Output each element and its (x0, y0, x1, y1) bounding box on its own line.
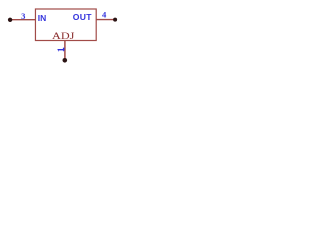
svg-text:3: 3 (21, 11, 25, 21)
svg-text:1: 1 (56, 47, 67, 52)
svg-text:ADJ: ADJ (52, 31, 75, 41)
svg-text:OUT: OUT (73, 12, 92, 22)
svg-text:IN: IN (38, 13, 47, 23)
svg-text:4: 4 (102, 9, 107, 19)
